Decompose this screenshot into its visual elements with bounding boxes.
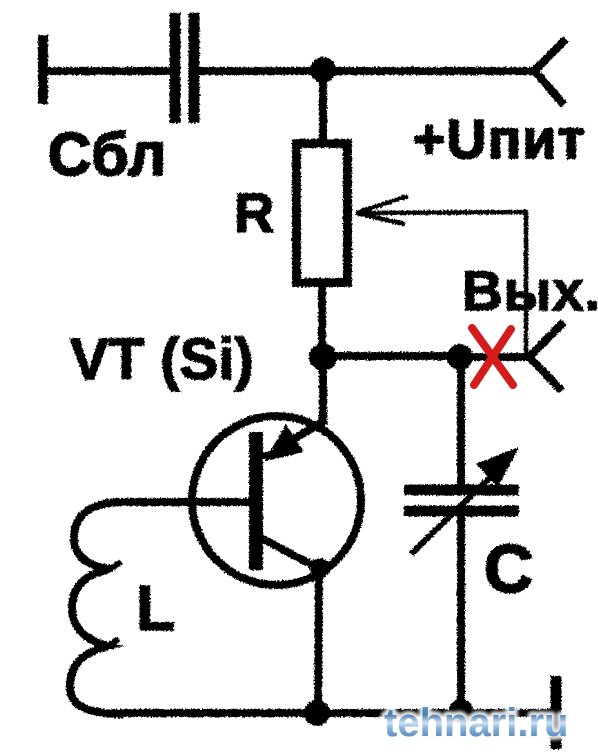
svg-text:Вых.: Вых. bbox=[462, 259, 598, 322]
svg-text:Сбл: Сбл bbox=[48, 121, 167, 188]
svg-text:+Uпит: +Uпит bbox=[413, 108, 586, 170]
svg-text:R: R bbox=[234, 181, 274, 244]
svg-text:VT (Si): VT (Si) bbox=[70, 327, 254, 392]
svg-text:tehnari.ru: tehnari.ru bbox=[384, 701, 568, 745]
svg-text:L: L bbox=[136, 572, 175, 644]
svg-text:C: C bbox=[484, 531, 533, 607]
